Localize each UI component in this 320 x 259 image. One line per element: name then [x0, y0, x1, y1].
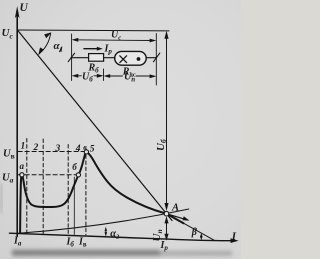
alpha2 double arrow — [105, 229, 107, 235]
bottom scan smudge — [12, 250, 232, 256]
angle alpha1 arc — [39, 34, 50, 54]
Ub vertical label (rotated) — [155, 139, 168, 151]
lamp dot electrode — [137, 57, 141, 61]
wire: lamp to right terminal — [146, 57, 156, 59]
load line — [18, 30, 172, 220]
Ub dimension (lower left) — [74, 75, 101, 77]
current Ip arrow — [84, 48, 98, 50]
beta tangent line — [167, 214, 215, 241]
divider 4|5 dashed through point v — [85, 149, 87, 235]
left edge scan smudge — [0, 183, 3, 213]
divider 2|3 dashed — [42, 139, 44, 234]
Up vertical label (rotated) — [151, 229, 164, 241]
divider 3|4 dashed — [67, 145, 69, 235]
beta angle arc — [200, 235, 202, 239]
svg-text:5: 5 — [90, 145, 95, 155]
Ub vertical dimension line — [166, 38, 168, 204]
point a circle — [20, 173, 24, 177]
U axis — [16, 14, 18, 236]
point b circle — [76, 173, 80, 177]
svg-text:A: A — [171, 203, 179, 214]
characteristic curve — [20, 152, 183, 233]
svg-text:а: а — [20, 161, 25, 171]
O-A static resistance line — [17, 209, 189, 233]
svg-text:3: 3 — [55, 144, 61, 154]
wire: resistor to lamp — [104, 57, 115, 59]
left terminal slash — [68, 53, 74, 62]
resistor Rb — [89, 54, 104, 62]
divider 1|2 dashed — [26, 139, 28, 234]
neon lamp (stadium) — [115, 51, 147, 65]
Uv dashed level — [18, 151, 85, 153]
svg-text:I: I — [231, 230, 237, 242]
svg-text:2: 2 — [33, 143, 39, 153]
circuit: right tick — [155, 34, 157, 86]
svg-text:U: U — [20, 2, 29, 14]
lamp cross electrode — [120, 56, 127, 63]
scan speck — [60, 48, 62, 52]
Uc level line — [17, 29, 169, 32]
wire: left terminal to resistor — [71, 57, 89, 59]
svg-text:б: б — [72, 162, 77, 172]
svg-text:β: β — [191, 227, 198, 238]
Ua dashed level — [18, 174, 77, 176]
circuit: Uc dimension line — [74, 39, 154, 42]
Up dimension (lower right) — [106, 75, 154, 77]
svg-text:1: 1 — [21, 142, 26, 152]
Up vertical dimension below A — [166, 218, 168, 238]
svg-text:4: 4 — [75, 144, 81, 154]
direction arrow at A — [168, 214, 186, 219]
point A circle — [164, 211, 169, 216]
circuit: mid tick — [103, 69, 105, 81]
right terminal slash — [153, 53, 159, 62]
point v circle — [84, 150, 88, 154]
ordinate Ib solid — [73, 177, 75, 235]
circuit: left tick — [71, 34, 73, 81]
I axis — [10, 233, 233, 241]
